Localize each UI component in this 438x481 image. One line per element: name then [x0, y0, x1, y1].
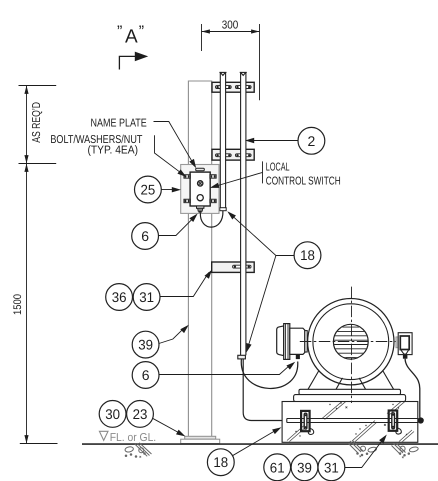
name plate — [196, 168, 205, 171]
flex cable switch to conduit — [200, 211, 223, 227]
post base plate — [181, 436, 220, 443]
ground line — [82, 443, 438, 445]
anchor bolt 1 — [301, 411, 314, 435]
svg-text:A: A — [125, 26, 138, 47]
svg-text:31: 31 — [139, 289, 154, 305]
motor base plates — [299, 389, 401, 394]
floor level marker FL. or GL. — [99, 431, 156, 444]
motor cable to buried conduit — [405, 359, 420, 418]
svg-text:(TYP. 4EA): (TYP. 4EA) — [88, 145, 139, 157]
svg-text:18: 18 — [300, 247, 315, 263]
callout 23 — [127, 401, 154, 428]
callout 6 lower — [132, 362, 159, 389]
conduit 2 (right channel) — [241, 73, 246, 356]
pump neck — [305, 331, 307, 352]
pump body — [290, 328, 305, 354]
callout 18 middle — [294, 242, 321, 269]
svg-text:30: 30 — [105, 406, 120, 422]
svg-text:39: 39 — [138, 337, 153, 353]
svg-text:”: ” — [117, 24, 122, 41]
svg-text:LOCAL: LOCAL — [266, 162, 290, 174]
motor terminal box — [396, 333, 412, 359]
conduit coupling at pad edge — [283, 418, 287, 425]
motor centerlines — [300, 287, 412, 403]
svg-text:18: 18 — [213, 454, 228, 470]
switch button — [197, 195, 203, 201]
callout 39 — [132, 331, 159, 358]
rail bracket 3 — [212, 262, 255, 272]
rail bracket 2 — [212, 149, 254, 160]
svg-text:1500: 1500 — [12, 294, 24, 315]
callout 61 — [264, 454, 291, 481]
buried conduit bar — [287, 419, 418, 423]
pad hatching — [287, 399, 414, 443]
svg-text:6: 6 — [141, 228, 149, 244]
svg-text:NAME PLATE: NAME PLATE — [91, 117, 148, 129]
svg-text:2: 2 — [308, 133, 316, 149]
gravel marks left — [125, 443, 152, 458]
callout 31 — [133, 284, 160, 311]
svg-text:25: 25 — [141, 182, 156, 198]
callout 30 — [99, 401, 126, 428]
support post — [188, 81, 211, 436]
callout 2 — [298, 127, 325, 154]
conduit 1 (left channel) — [220, 73, 225, 208]
svg-text:39: 39 — [297, 459, 312, 475]
svg-text:6: 6 — [142, 367, 150, 383]
switch corner bolts — [184, 175, 216, 203]
svg-text:23: 23 — [133, 406, 148, 422]
svg-text:300: 300 — [222, 20, 239, 32]
pump flange band — [284, 324, 290, 360]
dimension 300 — [202, 24, 260, 100]
dimension AS REQ'D — [19, 86, 57, 164]
anchor bolt 2 — [389, 411, 402, 435]
svg-text:”: ” — [139, 24, 144, 41]
section arrow — [119, 52, 148, 70]
motor fan circle hatched — [333, 324, 368, 359]
flex cable conduit to pump — [241, 359, 298, 388]
conduit end ball — [418, 417, 424, 423]
callout 39 bottom — [291, 454, 318, 481]
underground conduit run — [243, 359, 282, 421]
callout 31 bottom — [318, 454, 345, 481]
pump end cap — [277, 326, 284, 356]
switch backing plate — [181, 165, 219, 214]
callout 18 bottom — [207, 449, 234, 476]
switch cable connector — [197, 206, 204, 213]
svg-text:36: 36 — [112, 289, 127, 305]
svg-text:FL. or GL.: FL. or GL. — [110, 432, 157, 444]
gravel marks right 2 — [392, 443, 419, 458]
switch pilot light — [198, 181, 203, 186]
svg-text:61: 61 — [270, 459, 285, 475]
local control switch box — [190, 172, 210, 206]
dimension 1500 — [20, 164, 58, 444]
section label "A" — [117, 24, 144, 48]
motor (end view) — [308, 299, 394, 385]
callout 36 — [106, 284, 133, 311]
pump cable connector — [296, 355, 300, 360]
callout 6 upper — [132, 223, 159, 250]
svg-text:31: 31 — [324, 459, 339, 475]
motor feet — [308, 370, 394, 389]
svg-text:CONTROL SWITCH: CONTROL SWITCH — [266, 176, 341, 188]
svg-text:AS REQ’D: AS REQ’D — [31, 102, 43, 143]
callout 25 — [135, 176, 162, 203]
rail bracket 1 — [212, 82, 254, 92]
concrete pad — [282, 402, 418, 443]
gravel marks right 1 — [348, 441, 377, 458]
